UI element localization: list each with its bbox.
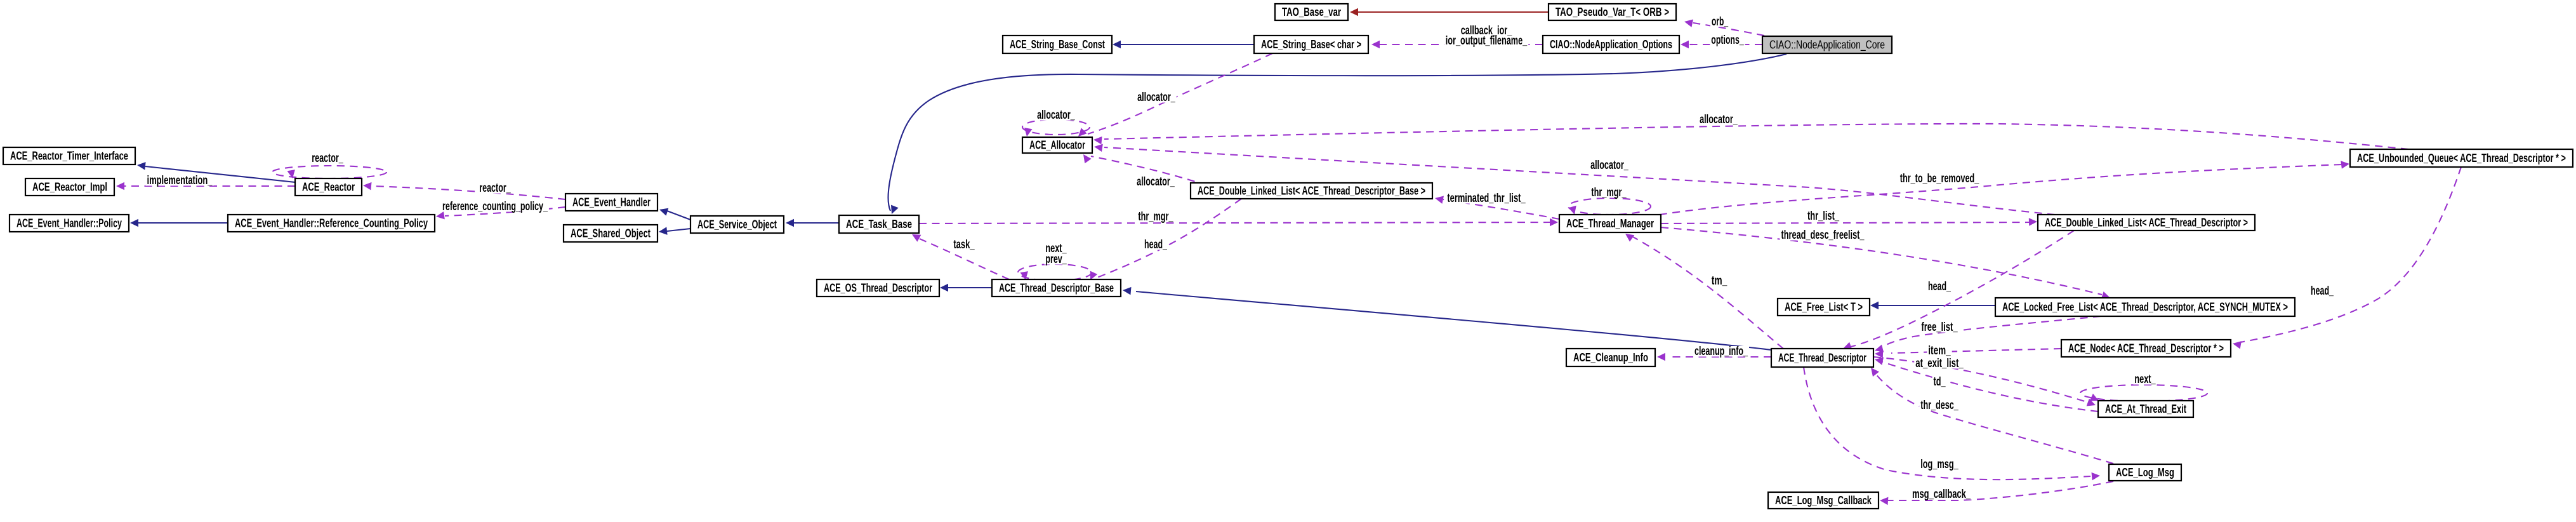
svg-text:ACE_Thread_Descriptor: ACE_Thread_Descriptor [1778, 352, 1866, 365]
svg-text:ACE_Double_Linked_List< ACE_Th: ACE_Double_Linked_List< ACE_Thread_Descr… [1198, 185, 1425, 197]
label reactor_ [478, 182, 512, 195]
label allocator_ [1135, 175, 1176, 189]
wire inherit Thread_Descriptor -> Thread_Descriptor_Base [1123, 287, 1771, 350]
svg-text:allocator_: allocator_ [1700, 113, 1738, 126]
node ACE_OS_Thread_Descriptor [817, 279, 939, 297]
wire thr_mgr_ long [919, 218, 1558, 227]
svg-text:next_: next_ [2134, 373, 2156, 386]
svg-text:log_msg_: log_msg_ [1920, 458, 1958, 471]
svg-text:thr_to_be_removed_: thr_to_be_removed_ [1900, 172, 1979, 185]
wire callback_ior_ edge [1371, 41, 1543, 49]
node ACE_String_Base_Const [1003, 36, 1112, 53]
svg-text:at_exit_list_: at_exit_list_ [1915, 357, 1964, 370]
node CIAO::NodeApplication_Options [1543, 36, 1679, 53]
label implementation_ [146, 174, 214, 187]
wire item_ edge [1875, 349, 2061, 358]
label next_ [2133, 373, 2157, 386]
label log_msg_ [1919, 458, 1960, 471]
svg-text:task_: task_ [953, 238, 975, 251]
svg-text:head_: head_ [2311, 284, 2334, 298]
wire inherit Task_Base -> Service_Object [786, 219, 839, 227]
wire cleanup_info_ edge [1657, 353, 1771, 361]
node ACE_Log_Msg [2109, 464, 2181, 481]
node ACE_Allocator [1022, 137, 1092, 153]
wire next_ self loop on ATE [2080, 385, 2207, 401]
node ACE_Thread_Manager [1559, 215, 1661, 232]
wire reference_counting_policy_ EH->RCP [436, 207, 565, 219]
svg-text:ACE_Reactor_Impl: ACE_Reactor_Impl [32, 181, 107, 194]
node ACE_Task_Base [839, 215, 919, 233]
svg-text:ACE_Task_Base: ACE_Task_Base [846, 218, 912, 231]
label msg_callback_ [1911, 488, 1972, 501]
wire thr_desc_ edge [1871, 368, 2113, 464]
label options_ [1710, 34, 1745, 47]
wire head_ DLL->TD [1843, 231, 2074, 350]
label head_ [1927, 280, 1952, 293]
svg-text:ACE_Reactor_Timer_Interface: ACE_Reactor_Timer_Interface [10, 150, 128, 163]
label thread_desc_freelist_ [1780, 229, 1866, 242]
wire reactor_ EH->Reactor [363, 182, 565, 199]
label allocator_ [1589, 159, 1630, 172]
label item_ [1927, 344, 1952, 358]
svg-text:ACE_At_Thread_Exit: ACE_At_Thread_Exit [2105, 403, 2186, 415]
svg-text:head_: head_ [1144, 238, 1167, 251]
wire inherit RCP -> Policy [130, 219, 228, 227]
svg-text:CIAO::NodeApplication_Options: CIAO::NodeApplication_Options [1550, 38, 1672, 51]
node ACE_Double_Linked_List< ACE_Thread_Descriptor > [2038, 215, 2255, 231]
svg-text:item_: item_ [1928, 344, 1951, 358]
label ior_output_filename_ [1444, 34, 1529, 48]
wire free_list_ edge [1875, 316, 2101, 352]
svg-text:ior_output_filename_: ior_output_filename_ [1446, 34, 1528, 48]
label task_ [952, 238, 975, 251]
svg-text:reactor_: reactor_ [479, 182, 511, 195]
svg-text:terminated_thr_list_: terminated_thr_list_ [1447, 192, 1526, 205]
label free_list_ [1920, 321, 1958, 334]
label thr_mgr_ [1137, 210, 1174, 224]
label allocator_ [1036, 109, 1076, 122]
wire orb_ edge [1684, 20, 1764, 36]
svg-text:td_: td_ [1934, 375, 1946, 389]
wire inherit Core -> Task_Base [888, 54, 1787, 214]
label thr_desc_ [1919, 399, 1960, 412]
wire reactor_ self loop [272, 166, 386, 178]
label allocator_ [1136, 91, 1177, 104]
wire implementation_ edge [116, 182, 295, 191]
node ACE_String_Base< char > [1254, 36, 1368, 53]
svg-text:ACE_Thread_Descriptor_Base: ACE_Thread_Descriptor_Base [999, 282, 1114, 295]
node ACE_At_Thread_Exit [2098, 401, 2193, 417]
wire at_exit_list_ edge [1873, 357, 2096, 406]
wire tm_ edge [1625, 234, 1783, 349]
svg-text:thr_desc_: thr_desc_ [1920, 399, 1958, 412]
label terminated_thr_list_ [1446, 192, 1526, 205]
svg-text:tm_: tm_ [1712, 274, 1727, 288]
svg-text:ACE_Locked_Free_List< ACE_Thre: ACE_Locked_Free_List< ACE_Thread_Descrip… [2002, 301, 2288, 314]
label prev_ [1044, 253, 1067, 266]
svg-text:ACE_Unbounded_Queue< ACE_Threa: ACE_Unbounded_Queue< ACE_Thread_Descript… [2357, 152, 2566, 164]
node ACE_Reactor_Impl [25, 178, 114, 196]
node ACE_Double_Linked_List< ACE_Thread_Descriptor_Base > [1191, 183, 1432, 199]
svg-text:head_: head_ [1928, 280, 1951, 293]
svg-text:reference_counting_policy_: reference_counting_policy_ [442, 200, 548, 213]
label callback_ior_ [1460, 24, 1514, 37]
wire log_msg_ edge [1804, 367, 2100, 480]
label thr_to_be_removed_ [1899, 172, 1981, 185]
wire head_ UQ->Node [2233, 167, 2461, 349]
wire task_ edge [912, 234, 1009, 279]
node CIAO::NodeApplication_Core [1762, 36, 1892, 53]
node ACE_Shared_Object [564, 225, 657, 242]
wire allocator_ from DLLB [1083, 154, 1207, 185]
label next_ [1044, 242, 1067, 255]
label thr_list_ [1806, 210, 1840, 223]
node ACE_Event_Handler::Policy [10, 215, 129, 232]
node ACE_Unbounded_Queue< ACE_Thread_Descriptor * > [2350, 149, 2573, 167]
wire inherit String_Base<char> -> String_Base_Const [1113, 41, 1254, 49]
label reactor_ [310, 152, 345, 165]
node ACE_Cleanup_Info [1566, 349, 1655, 366]
svg-text:ACE_Free_List< T >: ACE_Free_List< T > [1785, 301, 1863, 314]
svg-text:allocator_: allocator_ [1590, 159, 1628, 172]
svg-text:cleanup_info_: cleanup_info_ [1694, 345, 1748, 358]
svg-text:ACE_Allocator: ACE_Allocator [1029, 139, 1085, 152]
svg-text:msg_callback_: msg_callback_ [1912, 488, 1971, 501]
svg-text:allocator_: allocator_ [1137, 91, 1175, 104]
label orb_ [1710, 15, 1729, 29]
wire msg_callback_ edge [1880, 481, 2113, 505]
wire thread_desc_freelist_ edge [1661, 227, 2110, 299]
node ACE_Free_List< T > [1778, 298, 1870, 316]
wire inherit Service_Object -> Shared_Object [659, 227, 690, 235]
node ACE_Event_Handler [565, 194, 657, 211]
wire head_ DLLB->ATDB [1090, 199, 1241, 280]
svg-text:thr_list_: thr_list_ [1807, 210, 1839, 223]
node ACE_Node< ACE_Thread_Descriptor * > [2061, 340, 2231, 357]
wire next_ prev_ self loop on ATDB [1018, 264, 1092, 281]
node ACE_Service_Object [690, 216, 784, 233]
svg-text:ACE_Log_Msg: ACE_Log_Msg [2116, 466, 2174, 479]
svg-text:ACE_String_Base_Const: ACE_String_Base_Const [1010, 38, 1105, 51]
wire td_ edge [1875, 358, 2098, 412]
wire inherit Reactor -> Reactor_Timer_Interface [137, 162, 295, 182]
svg-text:ACE_Reactor: ACE_Reactor [302, 181, 355, 194]
svg-text:ACE_Cleanup_Info: ACE_Cleanup_Info [1573, 351, 1648, 364]
node ACE_Locked_Free_List< ACE_Thread_Descriptor, ACE_SYNCH_MUTEX > [1995, 298, 2295, 316]
wire inherit Service_Object -> Event_Handler [659, 208, 690, 220]
svg-text:CIAO::NodeApplication_Core: CIAO::NodeApplication_Core [1769, 39, 1885, 52]
wire allocator_ self loop [1022, 119, 1090, 137]
node TAO_Pseudo_Var_T< ORB > [1549, 4, 1676, 20]
svg-text:ACE_Service_Object: ACE_Service_Object [697, 218, 777, 231]
svg-text:ACE_Double_Linked_List< ACE_Th: ACE_Double_Linked_List< ACE_Thread_Descr… [2045, 217, 2248, 229]
svg-text:thread_desc_freelist_: thread_desc_freelist_ [1781, 229, 1865, 242]
wire terminated_thr_list_ edge [1435, 196, 1559, 220]
node TAO_Base_var [1275, 4, 1348, 20]
wire options_ edge [1681, 41, 1762, 49]
svg-text:orb_: orb_ [1712, 15, 1728, 29]
svg-text:ACE_OS_Thread_Descriptor: ACE_OS_Thread_Descriptor [824, 282, 932, 295]
wire thr_to_be_removed_ edge [1660, 161, 2349, 215]
wire inherit TAO_Pseudo_Var_T -> TAO_Base_var [1350, 8, 1549, 17]
wire inherit Locked_Free_List -> Free_List [1870, 302, 1995, 310]
label cleanup_info_ [1693, 345, 1749, 358]
svg-text:prev_: prev_ [1045, 253, 1067, 266]
svg-text:options_: options_ [1711, 34, 1744, 47]
node ACE_Reactor [295, 178, 362, 196]
wire allocator_ from StrChar [1078, 53, 1272, 137]
node ACE_Thread_Descriptor [1771, 349, 1873, 367]
node ACE_Log_Msg_Callback [1768, 492, 1879, 509]
svg-text:ACE_Log_Msg_Callback: ACE_Log_Msg_Callback [1775, 494, 1872, 507]
svg-text:allocator_: allocator_ [1137, 175, 1175, 189]
wire allocator_ from DLL [1094, 144, 2055, 215]
label allocator_ [1698, 113, 1739, 126]
label head_ [1143, 238, 1168, 251]
svg-text:ACE_String_Base< char >: ACE_String_Base< char > [1261, 38, 1361, 51]
wire thr_mgr_ self loop on TM [1568, 198, 1651, 215]
node ACE_Event_Handler::Reference_Counting_Policy [228, 215, 435, 232]
label head_ [2309, 284, 2335, 298]
node ACE_Reactor_Timer_Interface [3, 147, 135, 164]
svg-text:thr_mgr_: thr_mgr_ [1591, 186, 1626, 199]
wire thr_list_ edge [1661, 218, 2037, 226]
node ACE_Thread_Descriptor_Base [992, 279, 1121, 297]
svg-text:ACE_Shared_Object: ACE_Shared_Object [571, 227, 651, 240]
label thr_mgr_ [1590, 186, 1627, 199]
svg-text:ACE_Event_Handler::Policy: ACE_Event_Handler::Policy [17, 217, 122, 230]
label reference_counting_policy_ [441, 200, 549, 213]
svg-text:free_list_: free_list_ [1921, 321, 1958, 334]
svg-text:reactor_: reactor_ [312, 152, 343, 165]
svg-text:allocator_: allocator_ [1037, 109, 1075, 122]
svg-text:thr_mgr_: thr_mgr_ [1138, 210, 1173, 224]
label at_exit_list_ [1914, 357, 1965, 370]
svg-text:implementation_: implementation_ [147, 174, 213, 187]
svg-text:ACE_Event_Handler: ACE_Event_Handler [572, 196, 651, 209]
wire allocator_ long from UQ [1093, 124, 2408, 149]
svg-text:ACE_Event_Handler::Reference_C: ACE_Event_Handler::Reference_Counting_Po… [235, 217, 428, 230]
svg-text:TAO_Pseudo_Var_T< ORB >: TAO_Pseudo_Var_T< ORB > [1556, 6, 1669, 18]
label tm_ [1710, 274, 1729, 288]
label td_ [1932, 375, 1947, 389]
wire inherit Thread_Descriptor_Base -> OS_Thread_Descriptor [940, 284, 992, 292]
svg-text:ACE_Thread_Manager: ACE_Thread_Manager [1566, 217, 1654, 230]
svg-text:TAO_Base_var: TAO_Base_var [1282, 6, 1341, 18]
svg-text:ACE_Node< ACE_Thread_Descripto: ACE_Node< ACE_Thread_Descriptor * > [2068, 342, 2224, 355]
